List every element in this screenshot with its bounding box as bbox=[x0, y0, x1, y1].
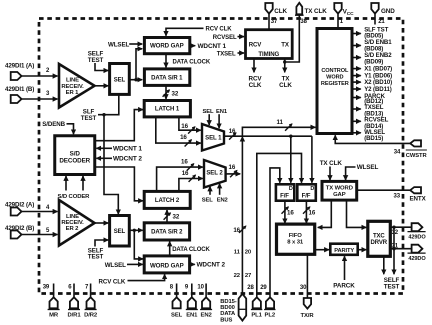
svg-text:EN1: EN1 bbox=[216, 109, 228, 115]
svg-text:BD00: BD00 bbox=[220, 305, 234, 311]
self test loop from output bbox=[393, 227, 395, 274]
s/d coder arrow 2 into decoder bbox=[82, 176, 84, 191]
pin 429DI1(B) symbol bbox=[11, 95, 22, 103]
WORD GAP 1 bbox=[144, 38, 189, 54]
S/D DECODER bbox=[55, 136, 95, 175]
svg-text:429DO: 429DO bbox=[408, 234, 426, 240]
pin TX CLK (38) symbol bbox=[295, 3, 304, 15]
DATA S/R 1 bbox=[144, 69, 189, 86]
pin 5 wire into line receiver 2 bbox=[21, 234, 57, 236]
F/F 1 output into FIFO bbox=[284, 201, 286, 223]
svg-text:37: 37 bbox=[271, 19, 278, 25]
EN2 control arrow into mux 2 bbox=[219, 184, 221, 195]
PARITY output to TXC DRVR bbox=[358, 249, 367, 251]
svg-text:39: 39 bbox=[43, 285, 50, 291]
overline EN2 bbox=[200, 309, 212, 311]
wlsel wire into WORD GAP 2 bbox=[127, 263, 143, 265]
slf test net down to SEL 2 top bbox=[104, 115, 118, 215]
pin 3 wire into line receiver 1 bbox=[21, 98, 57, 100]
overline MR bbox=[48, 309, 60, 311]
pin EN2 symbol bbox=[202, 297, 210, 308]
pin VCC wire to register bbox=[337, 13, 339, 28]
svg-text:TXC: TXC bbox=[373, 234, 385, 240]
line receiver 2 output to SEL bbox=[95, 222, 109, 224]
tx word gap to TXC DRVR bbox=[347, 200, 367, 227]
register output arrow 1 bbox=[352, 33, 361, 35]
svg-text:8 x 31: 8 x 31 bbox=[287, 240, 304, 246]
svg-text:FIFO: FIFO bbox=[289, 233, 303, 239]
bus width 32 (lower) bbox=[164, 213, 180, 221]
S/D decoder output to LATCH 1 input bbox=[95, 110, 143, 141]
underline 429DO pin 32 bbox=[408, 231, 426, 233]
svg-text:16: 16 bbox=[182, 170, 189, 177]
svg-text:WORD GAP: WORD GAP bbox=[150, 262, 184, 269]
bus width 16 (sel2 out) bbox=[229, 164, 237, 177]
bus width 16 (latch1 lower) bbox=[180, 134, 191, 146]
tx clk arrow into tx word gap bbox=[329, 167, 331, 181]
bus width 16 (BD bus) bbox=[233, 226, 245, 234]
svg-text:CONTROL: CONTROL bbox=[321, 68, 349, 74]
svg-text:WORD: WORD bbox=[326, 74, 343, 80]
svg-text:S/DENB: S/DENB bbox=[42, 121, 65, 128]
svg-text:22 - 27: 22 - 27 bbox=[234, 273, 252, 279]
svg-text:PARCK: PARCK bbox=[333, 282, 355, 289]
svg-text:11: 11 bbox=[277, 119, 284, 126]
svg-text:SEL: SEL bbox=[203, 109, 215, 115]
svg-text:D: D bbox=[310, 186, 314, 192]
pin D/R1 stub bbox=[73, 284, 75, 298]
pin 429DO (32) symbol bbox=[412, 223, 423, 231]
svg-text:SEL 1: SEL 1 bbox=[205, 135, 222, 142]
svg-text:TEST: TEST bbox=[81, 115, 97, 122]
flip-flop F/F 1 bbox=[276, 184, 294, 200]
register output arrow 10 bbox=[352, 120, 361, 122]
svg-text:TX/R: TX/R bbox=[300, 313, 314, 319]
svg-text:429DO: 429DO bbox=[408, 256, 426, 262]
svg-text:11 - 20: 11 - 20 bbox=[234, 250, 252, 256]
TXC DRVR bbox=[368, 221, 391, 256]
svg-text:ENTX: ENTX bbox=[410, 195, 427, 202]
svg-text:32: 32 bbox=[173, 214, 180, 221]
svg-text:SEL 2: SEL 2 bbox=[206, 169, 223, 176]
svg-text:CLK: CLK bbox=[274, 8, 287, 15]
bus width 11 bbox=[277, 119, 292, 131]
svg-text:PL1: PL1 bbox=[251, 313, 262, 319]
tx clk output of timing bbox=[283, 59, 286, 73]
LATCH 2 bbox=[144, 191, 190, 208]
s/denb wire into S/D decoder bbox=[67, 124, 74, 134]
pin VCC (1) symbol bbox=[334, 3, 341, 14]
F/F 2 output into FIFO bbox=[305, 201, 307, 223]
bus width 16 (ff1 out) bbox=[282, 207, 295, 217]
line receiver 1 output to SEL bbox=[95, 85, 109, 87]
underline 429DO pin 31 bbox=[408, 252, 426, 254]
svg-text:DATA CLOCK: DATA CLOCK bbox=[173, 60, 211, 66]
selector SEL 2 (receiver 2) bbox=[110, 216, 130, 247]
svg-text:WLSEL: WLSEL bbox=[357, 164, 379, 171]
32-bit bus data s/r 2 to latch 2 bbox=[166, 210, 168, 223]
pin MR stub bbox=[53, 284, 55, 298]
svg-text:SEL: SEL bbox=[202, 198, 214, 204]
pin EN1 symbol bbox=[188, 297, 196, 308]
svg-text:(BD09): (BD09) bbox=[364, 59, 383, 66]
register output arrow 2 bbox=[352, 45, 361, 47]
register output arrow 7 bbox=[352, 88, 361, 90]
pin CWSTR (34) symbol bbox=[410, 140, 421, 146]
overline PL2 bbox=[264, 309, 275, 311]
svg-text:10: 10 bbox=[197, 285, 204, 291]
pin SEL stub bbox=[176, 284, 178, 298]
SEL control arrow into mux 2 bbox=[209, 187, 211, 195]
pin D/R1 symbol bbox=[70, 297, 78, 308]
SEL 2 output to DATA S/R 2 bbox=[129, 229, 142, 232]
svg-text:CLK: CLK bbox=[279, 82, 292, 89]
svg-text:BUS: BUS bbox=[220, 317, 232, 323]
svg-text:TX WORD: TX WORD bbox=[326, 186, 353, 192]
svg-text:S/D CODER: S/D CODER bbox=[58, 194, 91, 200]
dashed chip boundary bbox=[39, 19, 403, 294]
pin CLK wire to TIMING bbox=[268, 13, 270, 29]
svg-text:429DI1 (B): 429DI1 (B) bbox=[5, 86, 34, 93]
svg-text:429DI1 (A): 429DI1 (A) bbox=[5, 63, 34, 70]
WDCNT 1 output of WORD GAP 1 bbox=[190, 45, 195, 47]
pin PL2 symbol bbox=[266, 297, 274, 308]
svg-text:16: 16 bbox=[233, 227, 240, 234]
pin EN1 stub bbox=[191, 284, 193, 298]
overline CWSTR bbox=[406, 149, 427, 151]
svg-text:ER 2: ER 2 bbox=[66, 226, 80, 232]
11-bit bus to control word register bbox=[242, 127, 315, 136]
overline D/R2 bbox=[85, 309, 97, 311]
svg-text:21: 21 bbox=[378, 19, 385, 25]
429DO (A) output wire pin 32 bbox=[390, 226, 411, 229]
self test wire into SEL 1 bbox=[95, 63, 108, 71]
DATA S/R 2 bbox=[144, 223, 189, 240]
SEL control arrow into mux 1 bbox=[208, 114, 210, 125]
svg-text:DATA S/R 2: DATA S/R 2 bbox=[151, 230, 183, 236]
svg-text:DRVR: DRVR bbox=[371, 240, 388, 246]
svg-text:WDCNT 1: WDCNT 1 bbox=[198, 43, 227, 50]
svg-text:MR: MR bbox=[49, 313, 59, 319]
FIFO 8x31 bbox=[277, 224, 315, 254]
svg-text:REGISTER: REGISTER bbox=[321, 81, 349, 87]
WLSEL wire into WORD GAP 1 bbox=[129, 43, 142, 45]
latch 1 bus upper into SEL 1 mux bbox=[179, 117, 201, 130]
wdcnt1 wire into decoder bbox=[96, 147, 112, 149]
mux SEL 2 trapezoid bbox=[204, 160, 226, 188]
rcv clk output of timing bbox=[253, 59, 255, 73]
pin CLK (37) symbol bbox=[265, 3, 272, 14]
svg-text:TX CLK: TX CLK bbox=[320, 160, 343, 167]
svg-text:RECEIV.: RECEIV. bbox=[61, 84, 84, 90]
bus width 16 (latch2 lower) bbox=[182, 170, 196, 182]
svg-text:TEST: TEST bbox=[88, 254, 104, 261]
rcvsel wire into timing bbox=[238, 36, 245, 38]
DATA CLOCK wire word gap 1 to data s/r 1 bbox=[165, 54, 167, 68]
overline D/R1 bbox=[68, 309, 80, 311]
pin GND (21) symbol bbox=[371, 3, 378, 14]
svg-text:D/R2: D/R2 bbox=[84, 313, 98, 319]
CONTROL WORD REGISTER bbox=[317, 29, 352, 134]
svg-text:SEL: SEL bbox=[114, 229, 126, 235]
svg-text:16: 16 bbox=[287, 210, 294, 217]
bus drop into F/F 1 D input bbox=[290, 136, 292, 183]
PL1 net to F/F 2 bbox=[257, 153, 302, 297]
slf test net from SEL 1 bottom bbox=[98, 95, 119, 117]
WORD GAP 2 bbox=[144, 256, 189, 273]
svg-text:RCVSEL: RCVSEL bbox=[213, 35, 237, 41]
bus width 16 (latch1 upper) bbox=[181, 123, 195, 133]
txsel wire into timing bbox=[238, 52, 245, 54]
PL2 net to F/F 1 bbox=[270, 168, 280, 297]
svg-text:38: 38 bbox=[300, 19, 307, 25]
wdcnt2 wire into decoder bbox=[96, 157, 112, 159]
pin PL1 symbol bbox=[253, 297, 261, 308]
TX/R wire from FIFO bbox=[306, 254, 308, 298]
svg-text:TXSEL: TXSEL bbox=[217, 51, 236, 57]
svg-text:EN2: EN2 bbox=[217, 198, 228, 204]
branch down to WORD GAP 2 bbox=[134, 230, 143, 259]
block TIMING bbox=[246, 30, 293, 59]
svg-text:CWSTR: CWSTR bbox=[406, 153, 428, 159]
pin BD15-BD00 data bus symbol (bidirectional) bbox=[239, 294, 247, 321]
svg-text:WDCNT 2: WDCNT 2 bbox=[113, 156, 142, 163]
svg-text:S/D: S/D bbox=[70, 150, 81, 157]
pin MR symbol bbox=[50, 297, 58, 308]
line receiver 2 (LINE RECEIVER 2) bbox=[59, 200, 95, 246]
svg-text:GAP: GAP bbox=[333, 192, 346, 198]
pin TX CLK wire bbox=[286, 15, 299, 62]
svg-text:LATCH 2: LATCH 2 bbox=[155, 198, 180, 204]
svg-text:PL2: PL2 bbox=[265, 313, 276, 319]
svg-text:TEST: TEST bbox=[88, 57, 104, 64]
svg-text:PARITY: PARITY bbox=[334, 248, 354, 254]
svg-text:D/R1: D/R1 bbox=[67, 313, 81, 319]
self test wire into SEL 2 bbox=[95, 240, 108, 247]
bus width 16 (sel1 out) bbox=[229, 128, 236, 139]
svg-text:16: 16 bbox=[180, 134, 187, 141]
svg-text:SEL: SEL bbox=[114, 78, 126, 84]
svg-text:16: 16 bbox=[229, 164, 236, 171]
overline PL1 bbox=[251, 309, 262, 311]
pin 429DI2(A) symbol bbox=[11, 208, 22, 216]
pin 4 wire into line receiver 2 bbox=[21, 211, 57, 213]
svg-text:F/F: F/F bbox=[280, 193, 289, 200]
latch 2 bus lower into SEL 2 mux bbox=[179, 179, 203, 192]
selector SEL 1 (receiver 1) bbox=[110, 64, 130, 95]
svg-text:RCV CLK: RCV CLK bbox=[99, 278, 126, 285]
overline EN1 bbox=[186, 309, 198, 311]
register output arrow 9 bbox=[352, 108, 361, 110]
BD data bus vertical line bbox=[241, 139, 243, 294]
register output arrow 5 bbox=[352, 75, 361, 77]
pin 429DI1(A) symbol bbox=[11, 72, 22, 80]
tx word gap to FIFO right input bbox=[318, 200, 332, 227]
429DO (B) output wire pin 31 bbox=[390, 247, 411, 250]
svg-text:WDCNT 2: WDCNT 2 bbox=[197, 262, 226, 269]
svg-text:F/F: F/F bbox=[302, 193, 311, 200]
register output arrow 3 bbox=[352, 57, 361, 59]
pin TX/R (30) symbol bbox=[304, 298, 311, 309]
FIFO output to PARITY bbox=[315, 249, 330, 251]
svg-text:X1 (BD07): X1 (BD07) bbox=[364, 66, 392, 73]
svg-text:TEST: TEST bbox=[384, 284, 400, 291]
svg-text:WDCNT 1: WDCNT 1 bbox=[113, 146, 142, 153]
register output arrow 4 bbox=[352, 68, 361, 70]
SEL output net to DATA S/R 1 bbox=[129, 78, 142, 81]
svg-text:16: 16 bbox=[181, 159, 188, 166]
bus drop into F/F 2 D input bbox=[311, 136, 313, 183]
svg-text:(BD15): (BD15) bbox=[364, 135, 383, 142]
svg-text:429DI2 (B): 429DI2 (B) bbox=[5, 225, 34, 232]
register output arrow 11 bbox=[352, 132, 361, 134]
svg-text:EN1: EN1 bbox=[186, 313, 198, 319]
svg-text:LINE: LINE bbox=[66, 78, 79, 84]
svg-text:WLSEL: WLSEL bbox=[105, 262, 126, 269]
svg-text:16: 16 bbox=[229, 128, 236, 135]
svg-text:30: 30 bbox=[300, 285, 307, 291]
svg-text:RCV CLK: RCV CLK bbox=[206, 27, 233, 33]
PARITY bbox=[330, 244, 357, 255]
flip-flop F/F 2 bbox=[297, 184, 316, 200]
pin 429DO (31) symbol bbox=[412, 245, 423, 253]
pin ENTX (33) symbol bbox=[410, 187, 421, 193]
svg-text:WLSEL: WLSEL bbox=[108, 41, 129, 48]
ENTX wire bbox=[357, 189, 410, 191]
pin D/R2 symbol bbox=[87, 297, 95, 308]
svg-text:TX CLK: TX CLK bbox=[305, 8, 328, 15]
wlsel wire into tx word gap bbox=[346, 167, 356, 180]
svg-text:34: 34 bbox=[394, 149, 401, 155]
svg-text:WORD GAP: WORD GAP bbox=[150, 43, 184, 50]
rcv clk wire into WORD GAP 2 bottom bbox=[128, 274, 165, 280]
svg-text:DATA: DATA bbox=[220, 311, 236, 317]
register output arrow 6 bbox=[352, 81, 361, 83]
svg-text:D: D bbox=[289, 186, 293, 192]
s/d coder arrow 1 into decoder bbox=[65, 176, 67, 191]
svg-text:16: 16 bbox=[309, 210, 316, 217]
EN1 control arrow into mux 1 bbox=[218, 114, 220, 128]
svg-text:DATA S/R 1: DATA S/R 1 bbox=[151, 75, 183, 81]
svg-text:16: 16 bbox=[181, 123, 188, 130]
svg-text:TIMING: TIMING bbox=[258, 51, 279, 58]
svg-text:DATA CLOCK: DATA CLOCK bbox=[172, 247, 210, 253]
svg-text:29: 29 bbox=[260, 285, 267, 291]
pin D/R2 stub bbox=[90, 284, 92, 298]
bus width 16 (latch2 upper) bbox=[181, 159, 194, 171]
svg-text:33: 33 bbox=[394, 194, 401, 200]
CWSTR wire into register bottom bbox=[335, 135, 410, 143]
BD data bus vertical bbox=[241, 137, 243, 139]
PARCK arrow into PARITY bbox=[344, 256, 346, 280]
rcv clk wire into WORD GAP 1 top bbox=[166, 28, 204, 36]
svg-text:31: 31 bbox=[392, 244, 399, 250]
pin 2 wire into line receiver 1 bbox=[21, 75, 57, 77]
svg-text:EN2: EN2 bbox=[201, 313, 213, 319]
TX WORD GAP bbox=[322, 181, 357, 200]
pin GND wire stub bbox=[374, 13, 376, 25]
latch 2 bus upper into SEL 2 mux bbox=[157, 167, 203, 191]
svg-text:GND: GND bbox=[381, 8, 395, 15]
svg-text:ER 1: ER 1 bbox=[66, 90, 80, 96]
svg-text:429DI2 (A): 429DI2 (A) bbox=[5, 202, 34, 209]
32-bit bus data s/r 1 to latch 1 bbox=[165, 86, 167, 100]
svg-text:BD15-: BD15- bbox=[220, 299, 236, 305]
self test loop from TXC DRVR bottom bbox=[383, 256, 385, 274]
WDCNT 2 output of WORD GAP 2 bbox=[190, 263, 195, 265]
pin 429DI2(B) symbol bbox=[11, 231, 22, 239]
latch 1 bus lower into SEL 1 mux bbox=[156, 117, 201, 143]
line receiver 1 (LINE RECEIVER 1) bbox=[59, 64, 95, 108]
svg-text:RECEIV.: RECEIV. bbox=[61, 220, 84, 226]
bus width 32 (upper) bbox=[163, 90, 179, 97]
pin EN2 stub bbox=[205, 284, 207, 298]
svg-text:32: 32 bbox=[392, 230, 399, 236]
S/D decoder output to LATCH 2 input bbox=[95, 167, 143, 201]
SEL 2 mux output to BD bus bbox=[226, 173, 241, 175]
svg-text:LATCH 1: LATCH 1 bbox=[155, 107, 180, 113]
branch up to WORD GAP 1 bbox=[136, 49, 142, 80]
svg-text:28: 28 bbox=[247, 285, 254, 291]
svg-text:RCV: RCV bbox=[249, 41, 263, 48]
DATA CLOCK wire word gap 2 to data s/r 2 bbox=[169, 242, 171, 256]
LATCH 1 bbox=[144, 101, 190, 117]
register output arrow 8 bbox=[352, 97, 361, 99]
svg-text:DECODER: DECODER bbox=[59, 157, 90, 164]
pin SEL symbol bbox=[173, 297, 181, 308]
svg-text:SEL: SEL bbox=[171, 313, 183, 319]
svg-text:LINE: LINE bbox=[66, 214, 79, 220]
svg-text:32: 32 bbox=[172, 90, 179, 97]
svg-text:CLK: CLK bbox=[249, 82, 262, 89]
16-bit receive bus from SEL 1 mux bbox=[224, 135, 312, 138]
bus width 16 (ff2 out) bbox=[303, 207, 316, 217]
svg-text:TX: TX bbox=[281, 41, 290, 48]
mux SEL 1 trapezoid bbox=[202, 124, 224, 151]
